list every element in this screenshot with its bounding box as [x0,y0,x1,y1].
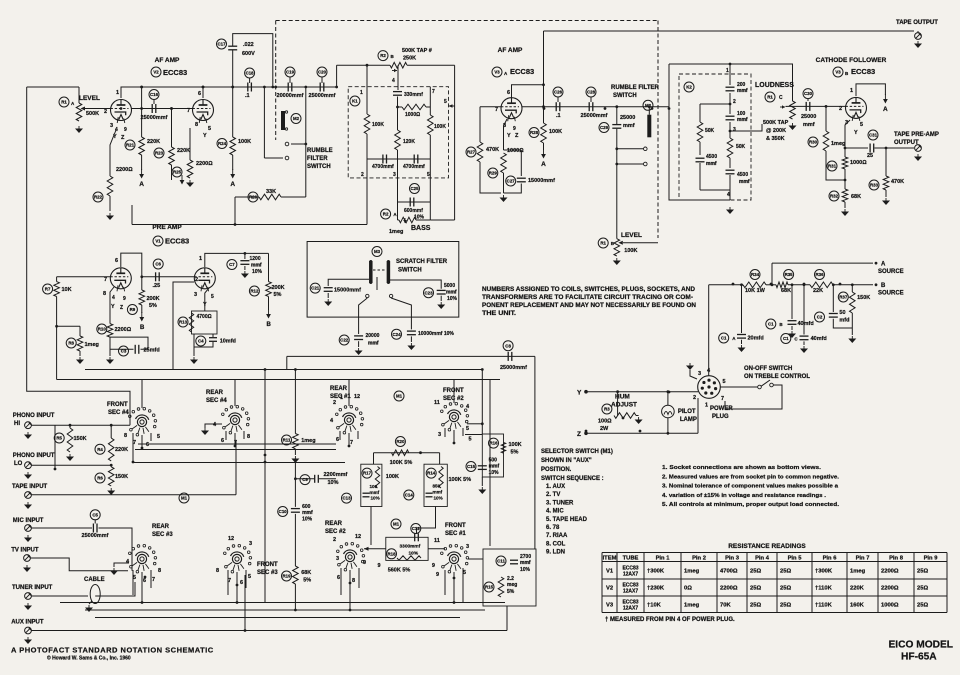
svg-text:PRE AMP: PRE AMP [152,224,182,231]
svg-text:M1: M1 [181,496,188,501]
svg-text:C1: C1 [768,322,774,327]
resistor R11 [282,435,292,445]
node [231,86,234,89]
svg-text:1: 1 [116,90,119,96]
capacitor C4 [196,336,206,346]
wire Z line [586,432,698,434]
svg-text:C22: C22 [340,338,349,343]
svg-text:9: 9 [123,296,126,302]
svg-text:10%: 10% [520,567,531,573]
ground [26,565,28,568]
svg-text:Y: Y [507,133,511,139]
ground [110,488,112,491]
output jack TAPE PRE-AMP [915,145,922,152]
svg-text:1. Socket connections are sh: 1. Socket connections are shown as botto… [662,465,821,471]
svg-text:5: 5 [427,172,430,178]
wire right branch [429,87,431,115]
svg-text:A: A [139,181,144,188]
designator M1 [179,493,189,503]
ground [193,357,195,360]
resistor 100K left [364,114,370,134]
svg-text:25Ω: 25Ω [780,602,791,608]
svg-text:25000mmf: 25000mmf [82,533,109,539]
svg-text:A: A [883,106,888,113]
wire [189,128,191,160]
wire [667,392,669,406]
svg-text:LEVEL: LEVEL [621,232,642,239]
designator K1 [350,96,360,106]
svg-text:2: 2 [333,537,336,543]
svg-text:V3: V3 [835,70,841,75]
wire cathode V1b [205,288,209,311]
capacitor C1-C [781,334,791,344]
svg-text:R19: R19 [282,574,291,579]
svg-text:33K: 33K [266,189,276,195]
dashed box K2 [679,74,751,200]
junction dots 3 [294,459,297,462]
wire aux [32,630,508,632]
svg-text:2W: 2W [600,426,609,432]
svg-text:15000mmf: 15000mmf [528,178,555,184]
wire vert2 [264,430,266,603]
svg-text:R22: R22 [94,195,103,200]
svg-text:25000: 25000 [620,115,635,121]
coil M2 right [647,115,651,138]
svg-text:mmf: mmf [368,341,379,347]
wire riser [336,65,338,87]
svg-text:8: 8 [124,433,127,439]
wire cathode [845,120,850,148]
ground [803,346,805,349]
svg-text:FRONT: FRONT [107,402,128,408]
wire B+ riser from plug [708,285,710,376]
ground [27,603,29,606]
ground [844,209,846,212]
ground plug pin3 [690,370,697,379]
wire mesh h1 [133,462,345,464]
ground [741,345,743,348]
capacitor C1-B [766,319,776,329]
svg-text:CATHODE FOLLOWER: CATHODE FOLLOWER [816,57,887,64]
svg-text:9: 9 [378,563,381,569]
resistor R25 [172,167,182,177]
svg-text:PHONO INPUT: PHONO INPUT [13,413,55,419]
svg-text:12AX7: 12AX7 [623,605,639,611]
input jack tape [25,492,32,499]
resistor R18 [387,549,397,559]
svg-text:25Ω: 25Ω [750,602,761,608]
svg-text:C24: C24 [392,332,401,337]
svg-text:PHONO INPUT: PHONO INPUT [13,453,55,459]
wire long mesh1 [60,602,505,604]
svg-text:2200Ω: 2200Ω [116,167,133,173]
switch contact [389,294,392,297]
svg-text:SEC #1: SEC #1 [445,531,466,537]
svg-text:25Ω: 25Ω [917,602,928,608]
svg-text:9. LDN: 9. LDN [546,550,565,556]
svg-text:15000mmf: 15000mmf [334,288,361,294]
tube V3b [846,97,867,118]
wire [264,157,283,159]
svg-text:25Ω: 25Ω [917,568,928,574]
svg-text:5%: 5% [511,450,519,456]
capacitor C8 [503,341,513,351]
svg-text:25Ω: 25Ω [750,568,761,574]
svg-text:1meg: 1meg [684,568,700,574]
wire left branch [366,65,368,114]
svg-text:TAPE OUTPUT: TAPE OUTPUT [896,20,938,26]
svg-text:mmf: mmf [737,117,748,123]
source B [875,283,878,286]
svg-text:C2: C2 [817,315,823,320]
svg-text:V2: V2 [606,586,613,592]
ground [79,357,81,360]
svg-text:25: 25 [867,153,873,159]
dashed gang line left [275,21,277,141]
svg-text:6: 6 [507,90,510,96]
capacitor C15 [466,462,476,472]
svg-text:OUTPUT: OUTPUT [894,140,919,146]
capacitor C19 [285,67,295,77]
capacitor C28 [586,87,596,97]
capacitor 200mmf [726,86,735,88]
input jack tv [24,555,31,562]
potentiometer R2-B TREBLE [378,51,388,61]
wire cathode V3a [504,119,508,150]
svg-text:120K: 120K [403,139,415,145]
wire plate V1b [205,253,269,267]
svg-text:C12: C12 [412,526,421,531]
capacitor C29 [599,123,609,133]
svg-text:R23: R23 [155,151,164,156]
svg-text:R13: R13 [179,320,188,325]
svg-text:C10: C10 [279,509,288,514]
wire level riser [616,129,618,239]
svg-text:5: 5 [211,294,214,300]
resistor R32 [829,191,839,201]
svg-text:@ 200K: @ 200K [766,128,786,134]
input jack phono lo [25,462,32,469]
svg-text:1: 1 [199,256,202,262]
svg-text:1meg: 1meg [684,602,700,608]
svg-text:9: 9 [124,127,127,133]
svg-text:BASS: BASS [411,225,431,232]
resistor R9 [127,305,137,315]
wire frontsec3 [236,573,238,603]
wire [397,65,399,90]
svg-text:6: 6 [240,580,243,586]
svg-text:4. MIC: 4. MIC [546,509,564,515]
input jack mic [25,525,32,532]
wire [766,284,776,286]
svg-text:5000: 5000 [444,283,455,289]
potentiometer R1-B [598,238,608,248]
svg-text:R14: R14 [427,471,436,476]
wire plate V2b [202,87,204,98]
capacitor C23 [424,288,434,298]
wire treble line [337,64,390,66]
ground [109,357,111,360]
svg-text:5: 5 [860,122,863,128]
svg-text:4500: 4500 [706,154,717,160]
wire [667,418,669,434]
wire Z riser [697,398,699,433]
svg-text:8: 8 [195,122,198,128]
svg-text:10%: 10% [447,296,458,302]
svg-text:2: 2 [361,172,364,178]
switch lever [376,277,378,290]
svg-text:3: 3 [733,127,736,133]
svg-text:FRONT: FRONT [443,388,464,394]
resistor R20 [395,437,405,447]
wire box B riser [439,453,441,465]
svg-text:3: 3 [698,371,701,377]
svg-text:K2: K2 [686,85,692,90]
svg-text:Y: Y [577,390,582,397]
svg-text:C5: C5 [92,512,98,517]
svg-text:6: 6 [337,575,340,581]
svg-text:3: 3 [194,292,197,298]
wire box A riser [373,453,375,465]
svg-text:1000Ω: 1000Ω [850,160,867,166]
svg-text:12AX7: 12AX7 [623,589,639,595]
switch contact [366,294,369,297]
svg-text:SWITCH: SWITCH [613,93,637,99]
svg-text:SWITCH SEQUENCE :: SWITCH SEQUENCE : [541,476,604,482]
wire wafer stub [225,431,227,440]
tube V1a [110,268,131,289]
svg-text:C26: C26 [554,90,563,95]
svg-text:R37: R37 [839,295,848,300]
ground [616,258,618,261]
supply arrow A [181,175,183,181]
svg-text:4: 4 [392,78,395,84]
input jack tuner [25,593,32,600]
capacitor C18 [245,68,255,78]
svg-text:3. Nominal tolerance of comp: 3. Nominal tolerance of component values… [662,484,839,490]
svg-text:20mfd: 20mfd [748,336,764,342]
tube V1b [194,268,215,289]
svg-text:ITEM: ITEM [603,556,617,562]
ground [440,302,442,305]
resistor R36 [815,270,825,280]
svg-text:1meg: 1meg [389,229,403,235]
svg-text:25Ω: 25Ω [780,568,791,574]
svg-text:R34: R34 [751,272,760,277]
wire [729,122,731,138]
svg-text:7: 7 [350,440,353,446]
svg-text:HI: HI [14,421,20,427]
ground [189,180,191,183]
svg-text:R11: R11 [283,438,291,443]
resistor R14 [426,468,436,478]
ground [244,271,246,274]
svg-text:6. 78: 6. 78 [546,525,560,531]
capacitor C9 [300,475,310,485]
wire [349,571,351,610]
wire long mesh2 [85,609,485,611]
svg-text:5. TAPE HEAD: 5. TAPE HEAD [546,517,588,523]
resistor R27 [466,147,476,157]
svg-text:200K: 200K [272,285,285,291]
wire [232,155,234,170]
wire sec4 links3 [135,449,336,451]
wire mesh h2 [138,443,336,445]
ground [481,487,483,490]
capacitor C5 [90,510,100,520]
svg-text:500K TAP: 500K TAP [763,120,789,126]
svg-text:6: 6 [198,91,201,97]
svg-text:3: 3 [393,172,396,178]
capacitor C26 [553,87,563,97]
svg-text:25mfd: 25mfd [144,348,160,354]
svg-text:V2: V2 [153,70,159,75]
svg-text:V1: V1 [155,239,161,244]
svg-text:160K: 160K [850,602,865,608]
svg-text:25000mmf: 25000mmf [141,115,168,121]
svg-text:R36: R36 [815,272,824,277]
svg-text:470K: 470K [891,179,904,185]
node [271,86,274,89]
ground [114,563,129,567]
wire [428,548,445,550]
ground [27,432,29,435]
svg-text:FILTER: FILTER [307,156,328,162]
svg-text:6: 6 [336,437,339,443]
tube V3a [501,98,522,119]
svg-text:.022: .022 [243,42,254,48]
svg-text:C31: C31 [869,133,878,138]
designator M1 [394,391,404,401]
ground [729,207,731,210]
svg-text:TAPE INPUT: TAPE INPUT [12,484,48,490]
ground [503,195,505,198]
node [729,63,732,66]
svg-text:V3: V3 [494,70,500,75]
capacitor 4700mmf [382,155,384,164]
svg-text:A: A [541,161,546,168]
pilot lamp [662,405,675,418]
svg-text:5: 5 [157,434,160,440]
svg-text:7: 7 [721,396,724,402]
svg-text:2200Ω: 2200Ω [115,327,132,333]
wire [57,325,80,327]
switch wafer REAR SEC4 [230,415,239,424]
svg-text:C28: C28 [587,90,596,95]
svg-text:mfd: mfd [839,318,849,324]
wire tape output riser [543,31,545,85]
tube label V3-B ECC83 [833,67,843,77]
wire wiper [786,105,795,108]
wire tape [32,494,237,496]
switch wafer FRONT SEC1 [449,554,458,563]
switch wafer REAR SEC1 [344,415,353,424]
resistor R35 [784,270,794,280]
wire rearsec3 [141,573,143,603]
svg-text:R9: R9 [130,307,136,312]
capacitor C24 [392,329,402,339]
svg-text:8: 8 [216,568,219,574]
wire [364,548,386,550]
resistor R7 [43,284,53,294]
svg-text:REAR: REAR [152,524,170,530]
wire pin2 tap [700,103,730,105]
svg-text:R17: R17 [363,471,372,476]
capacitor C20 [317,67,327,77]
svg-text:CABLE: CABLE [84,577,105,583]
svg-text:TV INPUT: TV INPUT [11,548,39,554]
resistor 50K mid [727,138,733,158]
wire FRONT2 to R16 [467,423,482,425]
svg-text:12: 12 [355,534,361,540]
ground [917,154,919,157]
capacitor C1-A [719,333,729,343]
svg-text:3: 3 [249,541,252,547]
svg-text:LAMP: LAMP [680,417,697,423]
capacitor C7 [227,260,237,270]
svg-text:R12: R12 [250,289,259,294]
svg-text:1: 1 [360,90,363,96]
svg-text:PILOT: PILOT [678,409,696,415]
wire [85,108,110,110]
svg-text:12: 12 [354,394,360,400]
designator M2 [291,114,301,124]
ground [358,348,360,351]
svg-text:R8: R8 [68,341,74,346]
ground [27,472,29,475]
svg-text:6: 6 [143,578,146,584]
svg-text:10K: 10K [62,287,72,293]
svg-text:Y: Y [203,133,207,139]
svg-text:7. RIAA: 7. RIAA [546,533,568,539]
svg-text:†10K: †10K [647,602,662,608]
svg-text:C20: C20 [318,70,327,75]
box R18 C12 [386,537,428,560]
switch contact [644,162,648,166]
svg-text:25000mmf: 25000mmf [581,113,608,119]
svg-text:B: B [140,325,145,331]
svg-text:100K: 100K [549,129,562,135]
svg-text:R28: R28 [530,130,539,135]
svg-text:1: 1 [850,88,853,94]
svg-text:Pin 2: Pin 2 [692,556,706,562]
box [483,549,536,606]
wire wafer stub [444,570,446,595]
svg-text:TUBE: TUBE [623,556,639,562]
svg-text:70K: 70K [720,602,731,608]
box M3 enclosure [307,242,459,318]
svg-text:2200mmf: 2200mmf [324,472,348,478]
svg-text:40mfd: 40mfd [798,321,814,327]
svg-text:330mmf: 330mmf [404,92,423,98]
svg-text:R33: R33 [870,183,879,188]
svg-text:5: 5 [723,379,726,385]
wire outer [668,108,670,110]
svg-text:9: 9 [363,560,366,566]
svg-text:150K: 150K [115,474,128,480]
svg-text:12AX7: 12AX7 [623,571,639,577]
resistor R19 [282,571,292,581]
wire bus2 [54,425,56,469]
svg-text:LO: LO [14,461,23,467]
svg-text:560K 5%: 560K 5% [388,568,411,574]
svg-text:NUMBERS ASSIGNED TO COILS, SWI: NUMBERS ASSIGNED TO COILS, SWITCHES, PLU… [482,287,696,293]
svg-text:1000Ω: 1000Ω [405,112,420,118]
svg-text:20000mmf: 20000mmf [277,93,304,99]
svg-text:RUMBLE FILTER: RUMBLE FILTER [611,85,660,91]
svg-text:C13: C13 [342,496,351,501]
svg-text:C29: C29 [600,125,609,130]
